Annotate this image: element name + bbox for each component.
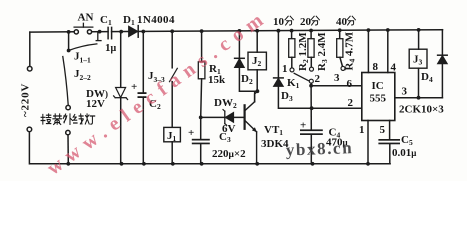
node DW bottom bbox=[120, 162, 124, 166]
svg-text:1N4004: 1N4004 bbox=[137, 14, 175, 26]
node C1-D1 bbox=[119, 30, 123, 34]
svg-text:1: 1 bbox=[282, 63, 288, 75]
capacitor C2 bbox=[138, 92, 147, 98]
node trigger-timing cross bbox=[310, 106, 314, 110]
node J1-1 pivot bbox=[67, 49, 71, 53]
relay coil J1 box bbox=[164, 127, 181, 141]
node J3-3 top bbox=[170, 29, 174, 33]
node D1 output bbox=[141, 30, 145, 34]
node threshold bbox=[309, 84, 313, 88]
node pin8 rail bbox=[367, 28, 371, 32]
node collector bbox=[256, 89, 260, 93]
wire K1 pivot to node bbox=[310, 83, 312, 86]
diode D2 bbox=[235, 58, 245, 67]
contact J1-1 arm bbox=[69, 44, 97, 51]
node R2 top bbox=[290, 29, 294, 33]
contact J3-3 arm bbox=[170, 68, 178, 81]
node emitter bottom bbox=[255, 162, 259, 166]
svg-text:R3 2.4M: R3 2.4M bbox=[316, 32, 329, 71]
wire pin8 lead bbox=[367, 30, 369, 72]
resistor R2 bbox=[289, 31, 295, 68]
wire bottom rail bbox=[30, 163, 390, 165]
zener DW2 bbox=[223, 110, 234, 126]
label 20min bbox=[300, 16, 312, 28]
wire D2 branch bbox=[238, 31, 240, 58]
node R1 top bbox=[200, 29, 204, 33]
transistor VT1 bbox=[245, 92, 257, 163]
capacitor C4 bbox=[300, 129, 323, 135]
wire J3-3 to J1 coil bbox=[171, 82, 173, 128]
node D2 top bbox=[238, 29, 242, 33]
contact J1-1 fixed stub bbox=[96, 32, 101, 41]
svg-text:6: 6 bbox=[347, 78, 353, 90]
node rail right of AN bbox=[98, 30, 102, 34]
svg-text:R4 4.7M: R4 4.7M bbox=[344, 31, 357, 70]
terminal lamp bottom bbox=[66, 130, 70, 134]
svg-text:40: 40 bbox=[336, 16, 348, 28]
svg-text:1: 1 bbox=[359, 124, 365, 136]
wire C2 branch bbox=[142, 32, 144, 164]
wire right rail bbox=[441, 30, 443, 98]
svg-text:0.01μ: 0.01μ bbox=[392, 147, 416, 159]
wire pin3 bbox=[395, 97, 443, 99]
svg-text:AN: AN bbox=[78, 12, 94, 24]
svg-text:10: 10 bbox=[273, 16, 285, 28]
wire J3 leads bbox=[418, 30, 420, 98]
wire collector drop bbox=[255, 91, 258, 102]
wire pin5 lead bbox=[389, 121, 391, 140]
svg-text:+: + bbox=[300, 120, 306, 132]
terminal K1 pos2 bbox=[310, 67, 314, 71]
wire C5 to rail corner bbox=[389, 144, 391, 164]
resistor R1 bbox=[198, 62, 205, 79]
wire D3 to trigger line bbox=[278, 86, 361, 108]
label 40min bbox=[336, 16, 348, 28]
node C4 bottom bbox=[311, 162, 315, 166]
svg-text:~220V: ~220V bbox=[20, 83, 32, 117]
svg-text:3: 3 bbox=[334, 72, 340, 84]
svg-text:5: 5 bbox=[380, 124, 386, 136]
node D3 top bbox=[277, 29, 281, 33]
relay coil J2 box bbox=[248, 52, 266, 70]
wire AN branch vertical bbox=[68, 32, 70, 51]
svg-text:+: + bbox=[188, 127, 194, 139]
svg-text:IC: IC bbox=[372, 80, 384, 92]
node lamp bottom rail bbox=[66, 162, 70, 166]
svg-text:ybx8.cn: ybx8.cn bbox=[285, 138, 353, 159]
svg-text:R2 1.2M: R2 1.2M bbox=[297, 32, 310, 71]
resistor R3 bbox=[308, 31, 314, 68]
zener DW bbox=[114, 88, 128, 100]
node R4 top bbox=[338, 28, 342, 32]
relay coil J3 box bbox=[409, 49, 427, 68]
svg-text:2CK10×3: 2CK10×3 bbox=[399, 104, 444, 116]
label fen2 chinese bbox=[311, 16, 319, 25]
svg-text:8: 8 bbox=[373, 61, 379, 73]
node pin3 J3 bbox=[417, 96, 421, 100]
wire pin6 link bbox=[311, 85, 362, 87]
resistor R4 bbox=[337, 30, 343, 66]
wire pin1 lead bbox=[367, 121, 369, 164]
node B base-divider bbox=[199, 116, 203, 120]
wire top rail bbox=[30, 30, 443, 32]
diode D1 bbox=[129, 26, 139, 38]
node C2 bottom bbox=[142, 162, 146, 166]
svg-text:4: 4 bbox=[391, 62, 397, 74]
label 10min bbox=[273, 16, 285, 28]
terminal AC bottom bbox=[27, 127, 32, 132]
svg-text:2: 2 bbox=[315, 73, 321, 85]
svg-text:12V: 12V bbox=[86, 98, 105, 110]
node AN branch bbox=[67, 30, 71, 34]
node C3 bottom bbox=[200, 162, 204, 166]
svg-text:15k: 15k bbox=[208, 74, 226, 86]
wire timing vertical bbox=[310, 86, 312, 130]
svg-text:+: + bbox=[131, 81, 137, 93]
switch K1 arm bbox=[294, 73, 308, 80]
label fen1 chinese bbox=[285, 16, 293, 25]
wire lamp to bottom rail bbox=[67, 135, 69, 164]
wire J2 leads bbox=[256, 31, 258, 91]
node J3 rail bbox=[417, 28, 421, 32]
node pin1 rail bbox=[366, 162, 370, 166]
wire DW branch bbox=[120, 32, 122, 164]
wire left rail bbox=[28, 32, 30, 164]
capacitor C3 bbox=[192, 139, 210, 145]
wire J3-3 branch upper bbox=[171, 31, 173, 68]
terminal K1 pos3 bbox=[341, 66, 345, 70]
svg-text:20: 20 bbox=[300, 16, 312, 28]
wire base link bbox=[201, 116, 244, 118]
node R3 top bbox=[309, 29, 313, 33]
wire C4 to rail bbox=[310, 135, 312, 164]
node J1 bottom bbox=[171, 162, 175, 166]
node J2 top bbox=[255, 29, 259, 33]
capacitor C1 bbox=[108, 27, 112, 38]
svg-text:3: 3 bbox=[402, 86, 408, 98]
diode D4 bbox=[438, 55, 448, 64]
IC U1 555 box bbox=[362, 73, 395, 121]
label lamp chinese bbox=[41, 114, 95, 124]
terminal AC top bbox=[27, 66, 32, 71]
svg-text:1μ: 1μ bbox=[105, 42, 117, 54]
wire pin4 lead bbox=[387, 30, 389, 73]
wire R1 to node B bbox=[200, 79, 203, 139]
svg-text:555: 555 bbox=[370, 93, 387, 105]
wire C3 to rail bbox=[200, 144, 202, 164]
wire D2 to collector node bbox=[239, 68, 257, 92]
terminal lamp top bbox=[66, 105, 70, 109]
wire J1 coil to rail bbox=[171, 142, 173, 164]
diode D3 bbox=[274, 78, 284, 87]
svg-text:2: 2 bbox=[348, 97, 354, 109]
svg-text:220μ×2: 220μ×2 bbox=[212, 148, 246, 160]
terminal K1 pos1 bbox=[290, 68, 294, 72]
wire D3 branch bbox=[277, 31, 279, 78]
wire R1 branch top bbox=[201, 31, 203, 62]
pushbutton AN bbox=[74, 23, 93, 34]
capacitor C5 bbox=[378, 139, 400, 144]
node pin4 rail bbox=[386, 28, 390, 32]
label fen3 chinese bbox=[347, 16, 355, 25]
contact J2-2 arm bbox=[63, 57, 68, 105]
terminal K1 pivot bbox=[309, 79, 313, 83]
